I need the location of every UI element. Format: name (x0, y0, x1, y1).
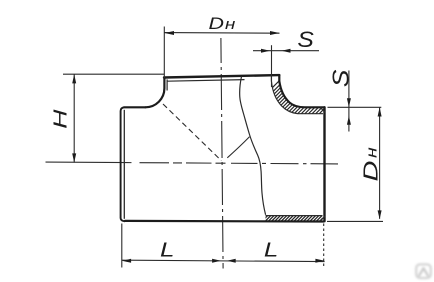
svg-text:S: S (297, 27, 314, 51)
section hatching: branch wall + fillet band + pipe top strip (225, 60, 373, 135)
pipe bottom edge (125, 220, 324, 223)
Dn right top arrow (378, 107, 382, 116)
L: right extension line (dotted) (323, 224, 325, 268)
L left arrow (122, 259, 131, 263)
branch top inner bevel line (167, 80, 245, 82)
H bottom arrow (72, 153, 76, 162)
centerline vertical (branch axis) (221, 38, 223, 269)
H: top extension line (63, 73, 165, 75)
S top: dimension line (253, 50, 319, 52)
Dn top: left extension line (163, 27, 165, 79)
svg-text:D: D (360, 161, 382, 182)
wavy break line (240, 77, 266, 215)
arrowheads (72, 31, 381, 263)
dashed diagonal (hidden intersection line, left) (163, 104, 221, 161)
Dn top: dimension line (165, 32, 280, 35)
bottom strip inner line (266, 215, 323, 217)
Dn top left arrow (165, 31, 175, 35)
svg-text:H: H (50, 109, 71, 129)
pipe left end: double (bevelled) (121, 107, 125, 221)
pipe right end (323, 107, 325, 221)
H top arrow (72, 74, 76, 83)
svg-text:н: н (225, 16, 235, 33)
L center left-pointing arrow (227, 259, 236, 263)
Dn right bottom arrow (378, 210, 382, 219)
S top left arrow (261, 49, 270, 53)
S right upper arrow (347, 98, 351, 107)
Dn right: dimension line (379, 107, 381, 219)
svg-text:L: L (160, 238, 174, 260)
main outline (thick) (124, 75, 325, 221)
svg-text:L: L (264, 238, 278, 260)
solid thin diagonal (right) (227, 137, 249, 158)
L: dimension line (122, 260, 325, 261)
thin inner / bevel lines (167, 76, 325, 221)
H: dimension line (73, 74, 75, 162)
section hatching: pipe bottom strip (256, 213, 331, 224)
Dn right: bottom extension line (327, 220, 383, 222)
L center right-pointing arrow (212, 259, 221, 263)
svg-text:D: D (209, 15, 225, 33)
branch left inner bevel (166, 79, 168, 90)
Dn right: top extension line (328, 106, 382, 108)
watermark logo bottom-right (416, 264, 431, 278)
Dn top right arrow (270, 31, 280, 35)
L: left extension line (121, 224, 123, 268)
right end corner chamfers (320, 108, 325, 113)
branch top edge (slightly skewed up to the right) (164, 75, 279, 77)
pipe top edge left of branch (124, 106, 145, 108)
L right arrow (315, 259, 324, 263)
S top: extension line (271, 45, 273, 87)
svg-text:S: S (329, 69, 354, 87)
branch left fillet + branch left outer edge (145, 78, 164, 108)
S right: dimension line (348, 71, 350, 132)
branch right inner wall + inner fillet + pipe top inner line (271, 76, 323, 114)
branch right outer edge + right fillet + pipe top right edge (279, 75, 324, 107)
S right lower arrow (347, 116, 351, 125)
centerline horizontal (pipe axis) (46, 162, 339, 164)
S top right arrow (282, 49, 291, 53)
svg-text:н: н (363, 147, 380, 158)
